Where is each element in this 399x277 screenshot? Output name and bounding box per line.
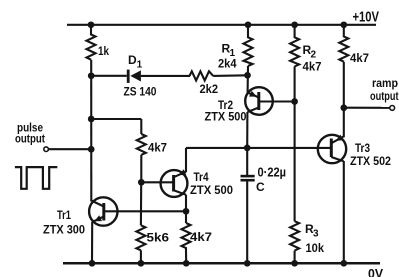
junction diode node on 1k line [88, 72, 95, 79]
svg-text:4k7: 4k7 [190, 230, 212, 244]
junction 4k7 / 0V rail [183, 260, 190, 267]
wire corner down to 4k7 (mid) [140, 119, 142, 134]
wire Tr4 base [141, 181, 173, 183]
transistor Tr3 ZTX502 circle [318, 135, 346, 163]
wire corner down to Tr4 emitter [185, 148, 187, 172]
svg-text:4k7: 4k7 [148, 141, 167, 155]
wire Tr3 collector to 0V rail [343, 161, 345, 263]
transistor Tr2 emitter diagonal [248, 93, 259, 98]
transistor Tr1 base bar [102, 203, 105, 221]
junction pulse output node [88, 146, 95, 153]
transistor Tr4 emitter diagonal [174, 172, 186, 178]
resistor R1 2k4 [244, 25, 253, 66]
wire diode branch left [91, 75, 127, 77]
svg-text:ZTX 502: ZTX 502 [350, 154, 391, 168]
transistor Tr3 emitter diagonal [331, 137, 343, 144]
junction C / 0V rail [244, 260, 251, 267]
transistor Tr1 ZTX300 circle [89, 197, 117, 225]
svg-text:4k7: 4k7 [303, 60, 322, 74]
wire +10V top supply rail [67, 24, 376, 26]
waveform pulse symbol [15, 167, 57, 189]
wire R1 to Tr2 emitter [247, 66, 249, 93]
junction R3 / 0V rail [291, 260, 298, 267]
resistor 1k [87, 25, 96, 60]
junction top rail / 1k [88, 21, 95, 28]
junction Tr2 base / R2 line [291, 98, 298, 105]
resistor R2 4k7 [290, 25, 299, 67]
transistor Tr2 collector diagonal [247, 108, 258, 113]
junction ramp output node [340, 104, 347, 111]
wire 0V bottom rail [63, 262, 380, 265]
wire 4k7 down to Tr3 emitter [343, 62, 345, 138]
svg-text:ZS 140: ZS 140 [124, 85, 157, 99]
transistor Tr4 base bar [172, 175, 175, 192]
svg-text:5k6: 5k6 [147, 231, 170, 245]
wire 5k6 to 0V rail [140, 250, 142, 263]
capacitor C top lead [246, 148, 248, 175]
transistor Tr2 emitter arrow [249, 91, 257, 97]
wire Tr4 collector to Tr1 base node [185, 195, 187, 212]
svg-text:Tr4: Tr4 [194, 170, 209, 184]
svg-text:0V: 0V [368, 266, 383, 277]
svg-text:ZTX 500: ZTX 500 [190, 183, 233, 197]
terminal pulse output [44, 147, 49, 152]
transistor Tr2 base bar [257, 92, 260, 110]
junction top rail / 4k7 [340, 21, 347, 28]
svg-text:2k4: 2k4 [218, 57, 237, 71]
resistor R3 10k [290, 221, 299, 250]
transistor Tr1 emitter arrow [94, 215, 102, 221]
transistor Tr2 ZTX500 circle [245, 87, 273, 115]
capacitor C bottom plate [241, 179, 255, 182]
wire 4k7 (mid) to Tr4 base node [140, 155, 142, 183]
wire ramp output [344, 107, 390, 109]
svg-text:ZTX 300: ZTX 300 [43, 223, 85, 237]
resistor 2k2 [190, 71, 214, 80]
transistor Tr1 emitter diagonal [93, 217, 104, 222]
svg-text:0·22µ: 0·22µ [258, 165, 287, 180]
svg-text:Tr3: Tr3 [355, 141, 370, 155]
resistor 5k6 [136, 225, 145, 250]
transistor Tr4 emitter arrow [179, 169, 187, 175]
svg-text:1: 1 [137, 60, 143, 71]
svg-text:2k2: 2k2 [200, 82, 219, 96]
wire Tr1 base [104, 210, 186, 212]
transistor Tr1 collector diagonal [91, 201, 104, 207]
wire diode to 2k2 [141, 75, 190, 77]
junction 5k6 / 0V rail [138, 260, 145, 267]
svg-text:1k: 1k [98, 44, 109, 58]
junction Tr4 base node [138, 179, 145, 186]
transistor Tr3 emitter arrow [336, 135, 344, 141]
junction Tr1 emitter / 0V rail [89, 260, 96, 267]
capacitor C bottom lead [246, 181, 248, 263]
wire Tr4 base node down to 5k6 [140, 182, 142, 225]
wire main horizontal node (Tr4 emitter / C / Tr3 base) [186, 147, 331, 149]
transistor Tr3 collector diagonal [331, 157, 343, 161]
svg-text:output: output [370, 89, 399, 103]
junction top rail / R2 [291, 21, 298, 28]
wire Tr2 collector down to cap node [246, 112, 248, 148]
svg-text:+10V: +10V [353, 9, 380, 26]
svg-text:10k: 10k [306, 241, 325, 255]
junction 4k7 feed node on 1k line [88, 116, 95, 123]
junction Tr1 base / Tr4 collector / 4k7 bottom [183, 208, 190, 215]
svg-text:Tr1: Tr1 [57, 208, 71, 222]
transistor Tr4 ZTX500 circle [161, 170, 188, 197]
svg-text:C: C [256, 180, 265, 194]
resistor 4k7 (bottom) [182, 223, 191, 252]
junction C top / Tr2 collector [244, 145, 251, 152]
resistor 4k7 (Tr3 branch) [339, 25, 348, 62]
wire Tr2 base to R2 branch [259, 100, 295, 102]
wire pulse output [48, 148, 91, 150]
wire 2k2 to R1 branch [213, 74, 247, 77]
svg-text:4k7: 4k7 [350, 51, 369, 65]
svg-text:output: output [15, 132, 45, 146]
junction Tr3 collector / 0V rail [340, 260, 347, 267]
capacitor C top plate [241, 175, 255, 178]
wire down to 4k7 (bottom) [185, 211, 187, 223]
wire Tr1 emitter to 0V rail [91, 222, 93, 263]
svg-text:ZTX 500: ZTX 500 [205, 109, 247, 123]
wire 4k7 (bottom) to 0V rail [185, 252, 187, 264]
wire 1k bottom down to Tr1 [90, 60, 92, 202]
wire 1k node to 4k7 (mid) [91, 118, 141, 120]
svg-text:3: 3 [313, 229, 319, 240]
resistor 4k7 (mid) [137, 134, 146, 155]
terminal ramp output [390, 106, 395, 111]
diode D1 ZS140 cathode bar [127, 70, 130, 83]
diode D1 triangle [130, 70, 141, 81]
transistor Tr4 collector diagonal [174, 190, 186, 194]
wire R3 to 0V rail [294, 251, 296, 264]
junction 2k2 / R1 [244, 72, 251, 79]
wire R2 down through Tr2 base node to R3 [294, 66, 296, 221]
transistor Tr3 base bar [330, 139, 333, 158]
junction top rail / R1 [245, 21, 252, 28]
